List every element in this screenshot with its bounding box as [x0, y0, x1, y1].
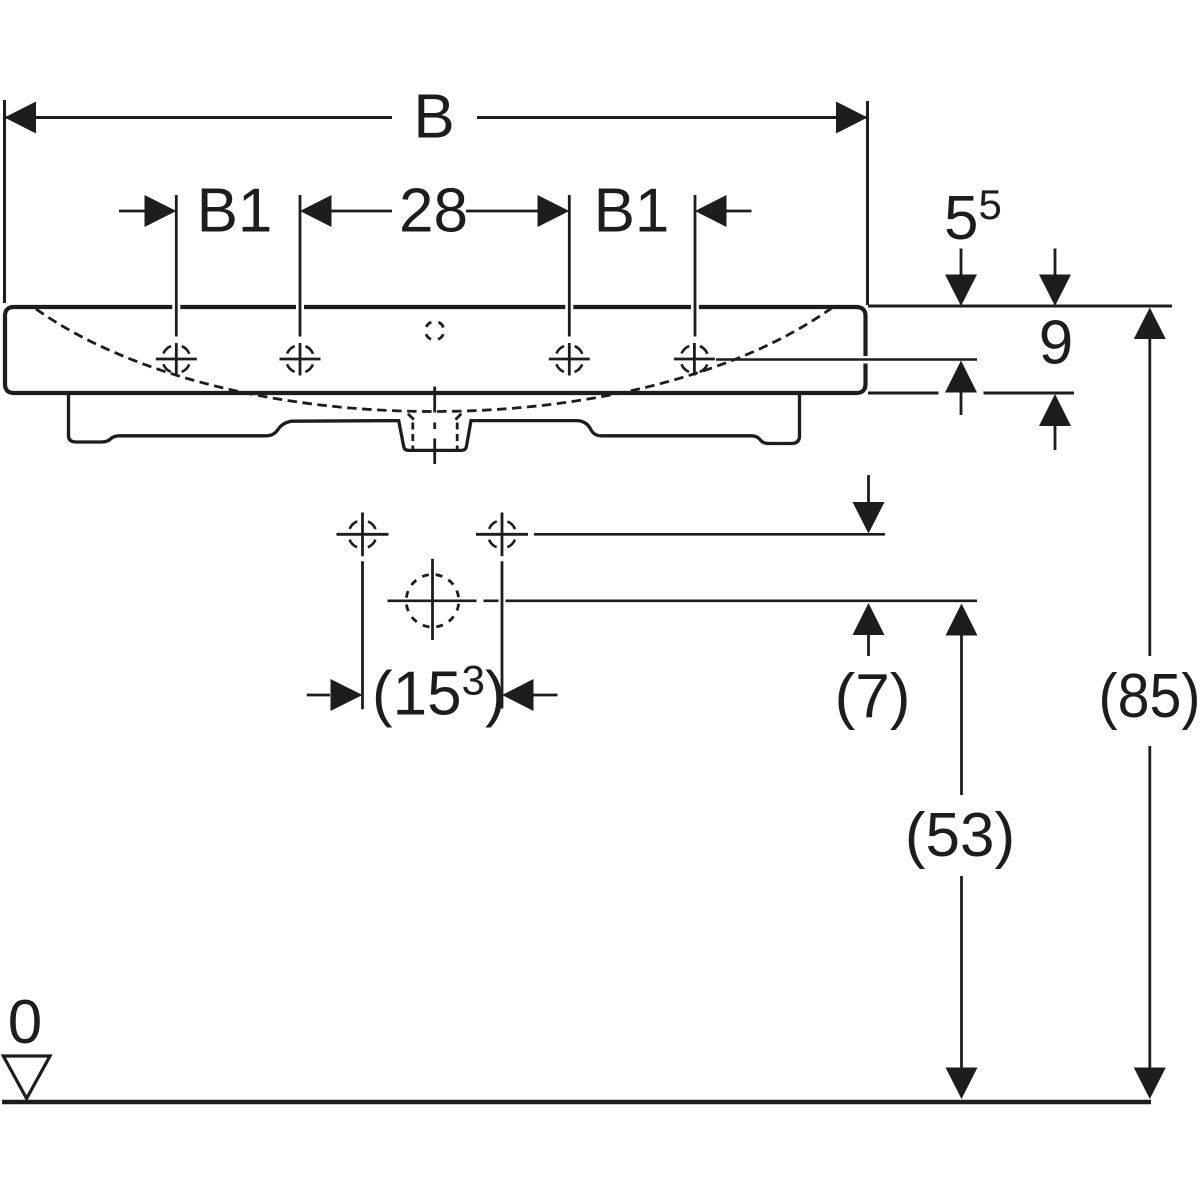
- dimension 85: line upper part: [1148, 339, 1151, 657]
- svg-text:0: 0: [8, 988, 42, 1057]
- drain centre line through siphon: [433, 387, 436, 465]
- siphon housing: dashed inner wall right: [456, 423, 459, 452]
- anchor hole axis line extended right: [534, 533, 885, 536]
- svg-text:(7): (7): [835, 662, 911, 731]
- dimension 5.5: lower up-arrowhead: [945, 361, 977, 393]
- dimension 9: upper down-arrow stem: [1054, 249, 1057, 276]
- dimension 85: line lower part: [1148, 746, 1151, 1068]
- tap hole 3: dashed circle: [555, 345, 583, 373]
- dimension B: dimension line: [5, 116, 868, 119]
- washbasin body: left edge: [3, 316, 7, 384]
- row B1/28: extension line x=176: [175, 195, 178, 337]
- svg-text:(85): (85): [1099, 662, 1200, 731]
- washbasin body: top-right corner: [856, 307, 866, 316]
- row B1/28: extension line x=695: [694, 195, 697, 337]
- dimension 28: left line: [331, 210, 392, 213]
- drain outlet: vertical centre line: [431, 559, 434, 640]
- drain outlet: dashed circle: [406, 575, 459, 628]
- floor datum line: [2, 1100, 1151, 1105]
- dimension 15.3: left tail line: [307, 694, 330, 697]
- svg-text:9: 9: [1039, 309, 1073, 378]
- dimension 53: line upper part: [960, 635, 963, 795]
- dimension B1 left: tail line: [119, 210, 146, 213]
- funnel dash left: [408, 414, 414, 420]
- basin inner contour (dashed): [36, 307, 833, 412]
- svg-text:B1: B1: [594, 177, 670, 246]
- overflow hole (small dashed circle): [425, 321, 444, 340]
- siphon housing: dashed inner wall left: [411, 423, 414, 452]
- dimension 7: upper down-arrowhead: [853, 502, 885, 534]
- dimension 85: top up-arrowhead: [1134, 308, 1166, 340]
- drain outlet axis line extended right: [388, 599, 978, 602]
- tap hole 1: dashed circle: [162, 345, 190, 373]
- top reference line (washbasin top, extended right): [868, 305, 1172, 308]
- dimension 85: bottom down-arrowhead: [1134, 1068, 1166, 1100]
- wall anchor hole right: dashed circle: [488, 520, 516, 548]
- funnel dash right: [456, 414, 462, 420]
- dimension 15.3: right tail line: [534, 694, 558, 697]
- svg-text:(53): (53): [905, 801, 1015, 870]
- svg-text:(153): (153): [372, 657, 506, 729]
- dimension B: left arrowhead: [5, 102, 37, 134]
- row B1/28: extension line x=569: [568, 195, 571, 337]
- tap hole 2: dashed circle: [286, 345, 314, 373]
- dimension 28: left arrowhead: [300, 195, 332, 227]
- wall anchor hole right: cross: [476, 513, 528, 557]
- dimension 15.3: left extension line: [361, 561, 364, 709]
- dimension 7: lower up-arrow stem: [867, 635, 870, 657]
- dimension 15.3: right extension line: [501, 561, 504, 708]
- datum triangle: [3, 1056, 50, 1099]
- wall anchor hole left: cross: [337, 513, 389, 557]
- dimension B1 right: arrowhead: [695, 195, 727, 227]
- dimension 53: upper up-arrowhead: [946, 604, 978, 636]
- dimension B1 right: tail line: [726, 210, 752, 213]
- dimension B1 left: arrowhead: [145, 195, 177, 227]
- svg-text:B1: B1: [197, 177, 273, 246]
- wall anchor hole left: dashed circle: [349, 520, 377, 548]
- dimension B: left extension line: [3, 100, 6, 303]
- svg-text:B: B: [413, 83, 454, 152]
- dimension 53: bottom down-arrowhead: [946, 1068, 978, 1100]
- washbasin body: top-left corner: [5, 307, 14, 316]
- lower profile: feet and siphon housing: [69, 393, 800, 450]
- washbasin body: top edge with gaps at extension lines: [14, 305, 856, 309]
- tap hole 4: cross: [674, 343, 715, 376]
- tap hole 1: cross: [156, 343, 197, 376]
- washbasin body: bottom edge: [5, 384, 866, 393]
- dimension 9: lower up-arrowhead: [1039, 394, 1071, 426]
- dimension 53: line lower part: [960, 876, 963, 1068]
- row B1/28: extension line x=300: [299, 195, 302, 337]
- dimension 15.3: left arrowhead: [331, 679, 363, 711]
- dimension B: right arrowhead: [836, 102, 868, 134]
- tap hole 2: cross: [280, 343, 321, 376]
- dimension 28: right arrowhead: [538, 195, 570, 227]
- dimension 7: upper down-arrow stem: [867, 475, 870, 503]
- tap hole 3: cross: [549, 343, 590, 376]
- dimension 15.3: right arrowhead: [502, 679, 534, 711]
- dimension 7: lower up-arrowhead: [853, 603, 885, 635]
- dimension 5.5: lower up-arrow stem: [960, 392, 963, 415]
- tap hole axis line extended right: [716, 358, 977, 361]
- dimension 5.5: upper down-arrow stem: [960, 249, 963, 276]
- washbasin body: right edge with gap at axis line: [863, 316, 867, 384]
- dimension B: right extension line: [866, 101, 869, 305]
- bottom reference line (washbasin bottom, extended right): [868, 392, 1074, 395]
- dimension 9: upper down-arrowhead: [1039, 275, 1071, 307]
- dimension 5.5: upper down-arrowhead: [945, 275, 977, 307]
- tap hole 4: dashed circle: [680, 345, 708, 373]
- svg-text:28: 28: [399, 177, 468, 246]
- dimension 28: right line: [466, 210, 539, 213]
- dimension 9: lower up-arrow stem: [1054, 426, 1057, 450]
